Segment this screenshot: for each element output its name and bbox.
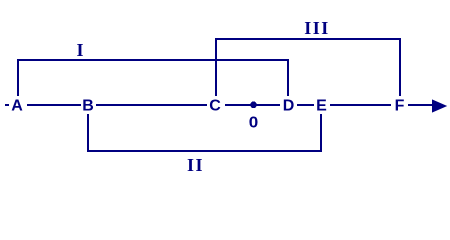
wire F-arrow (408, 104, 434, 106)
bracket II right vertical (below E) (320, 114, 322, 152)
wire E-F (330, 104, 391, 106)
wire C-D (225, 104, 280, 106)
svg-text:B: B (82, 98, 94, 115)
arrowhead (432, 99, 447, 112)
junction dot O (250, 101, 257, 108)
svg-text:C: C (209, 98, 221, 115)
bracket II horizontal (87, 150, 322, 152)
bracket I left vertical (above A) (17, 59, 19, 96)
bracket I right vertical (above D) (287, 59, 289, 96)
svg-text:D: D (283, 98, 295, 115)
bracket III left vertical (above C) (215, 38, 217, 96)
svg-text:0: 0 (249, 115, 259, 132)
svg-text:I: I (76, 40, 85, 60)
bracket II left vertical (below B) (87, 114, 89, 152)
svg-text:F: F (395, 98, 405, 115)
svg-text:A: A (11, 98, 23, 115)
bracket I horizontal (17, 59, 289, 61)
bracket III horizontal (215, 38, 401, 40)
wire D-E (297, 104, 314, 106)
svg-text:E: E (316, 98, 327, 115)
wire A-B (27, 104, 81, 106)
svg-text:II: II (187, 155, 204, 175)
bracket III right vertical (above F) (399, 38, 401, 96)
wire B-C (96, 104, 207, 106)
wire main-line left stub (5, 104, 9, 106)
svg-text:III: III (304, 18, 330, 38)
